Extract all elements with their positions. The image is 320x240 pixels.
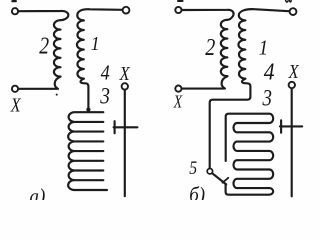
svg-text:5: 5 [189,158,197,178]
cut-off terminal letter mark (top of right circuit) [177,0,184,2]
cut-off terminal letter mark (top left) [11,0,17,2]
svg-text:X: X [173,93,183,112]
terminal X of element 4 (right circuit) [289,82,295,88]
svg-text:2: 2 [205,33,215,60]
svg-text:б): б) [189,184,205,200]
element 4: vertical rod (left circuit) [124,91,126,197]
cut-off letter mark above terminal a' [286,0,292,2]
svg-text:1: 1 [91,33,100,55]
winding 1' (primary coil, 6 loops) [238,20,245,78]
svg-text:3: 3 [99,83,110,109]
winding 3 (secondary coil, loop style) [68,112,107,190]
terminal a' (top-right of right circuit) [290,8,297,15]
svg-text:X: X [10,94,22,116]
svg-text:2: 2 [39,32,49,59]
svg-text:4: 4 [101,61,110,85]
winding 2 (primary coil, 6 loops) [54,20,61,76]
junction dot (node: winding 1 - winding 3) [86,108,90,112]
terminal A (top-left) of winding 2 [12,8,18,14]
element 4: adjuster cross-bar (left circuit) [114,121,138,133]
terminal X (bottom-left) of winding 2 [12,86,18,92]
terminal a (top-right of left circuit) [123,7,130,14]
tap switch 5: pivot [207,169,212,174]
wire: winding 2' bottom to terminal X' [182,76,227,88]
winding 1 (primary coil, 6 loops) [77,20,84,78]
svg-text:3: 3 [262,85,272,111]
svg-text:X: X [119,62,131,84]
tap switch 5: wiper contact tick [223,178,229,183]
winding 2' (primary coil, 6 loops) [221,20,228,76]
terminal X of element 4 (left circuit) [122,83,128,89]
element 4: vertical rod (right circuit) [291,89,293,196]
terminal X' (right circuit) [175,86,181,92]
element 4: adjuster cross-bar (right circuit) [280,120,302,132]
wire: winding 1' top to terminal a' [239,9,289,20]
svg-text:1: 1 [259,37,268,60]
tap switch 5: wiper arm [212,173,226,184]
wire: winding 1' bottom to tap switch 5 [210,79,251,169]
stray ink dot [56,94,58,96]
wire: winding 1 top to terminal a [77,9,122,20]
wire: terminal A to winding 2 [19,11,69,20]
wire: winding 2 bottom to terminal X [19,77,61,89]
svg-text:а): а) [30,185,46,200]
terminal A' (top-left of right circuit) [175,7,181,13]
svg-text:X: X [288,60,300,82]
svg-text:4: 4 [264,59,275,85]
wire: terminal A' to winding 2' [182,10,234,20]
wire: winding 1 bottom to winding 3 tap [80,79,88,111]
winding 3' (tapped secondary coil) [226,114,274,195]
